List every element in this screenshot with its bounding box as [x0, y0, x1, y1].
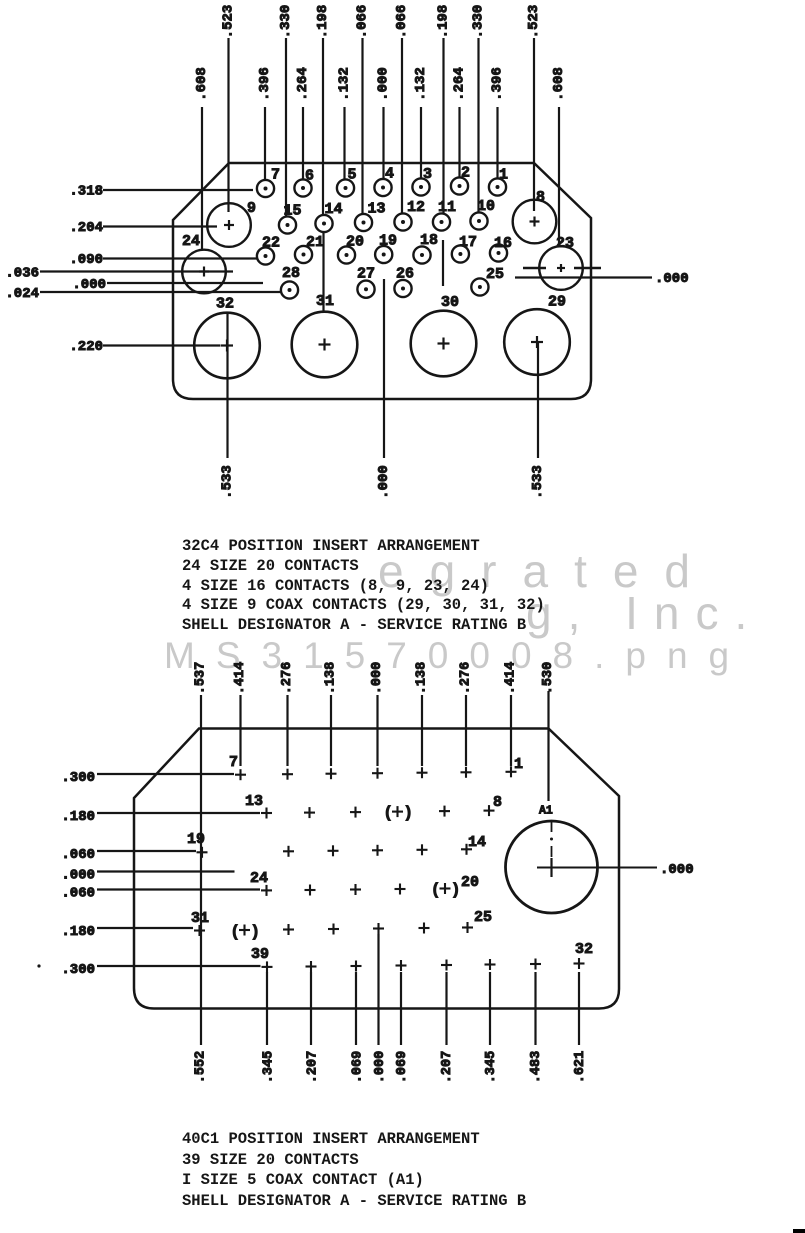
svg-text:.132: .132	[413, 67, 429, 101]
svg-text:.069: .069	[395, 1051, 410, 1083]
svg-text:.000: .000	[61, 868, 95, 884]
svg-text:.180: .180	[61, 809, 95, 825]
svg-text:.060: .060	[61, 847, 95, 863]
svg-text:30: 30	[441, 294, 459, 311]
svg-text:A1: A1	[539, 805, 553, 818]
svg-text:29: 29	[548, 294, 566, 311]
svg-text:.414: .414	[504, 662, 519, 694]
svg-text:24: 24	[250, 870, 268, 887]
svg-text:19: 19	[187, 831, 205, 848]
svg-text:.396: .396	[257, 67, 273, 101]
svg-text:23: 23	[556, 235, 574, 252]
svg-text:6: 6	[305, 168, 314, 185]
svg-text:.414: .414	[233, 662, 248, 694]
svg-text:.318: .318	[69, 184, 103, 200]
svg-text:7: 7	[229, 754, 238, 771]
svg-text:.264: .264	[295, 67, 311, 101]
svg-text:.608: .608	[194, 67, 210, 101]
svg-text:.132: .132	[337, 67, 353, 101]
svg-text:.530: .530	[541, 662, 556, 694]
svg-text:.276: .276	[459, 662, 474, 694]
svg-text:7: 7	[271, 167, 280, 184]
svg-text:): )	[251, 923, 260, 941]
svg-text:.483: .483	[529, 1051, 544, 1083]
svg-text:18: 18	[420, 232, 438, 249]
svg-text:.000: .000	[370, 662, 385, 694]
svg-text:16: 16	[494, 235, 512, 252]
svg-text:.330: .330	[278, 5, 294, 39]
svg-text:8: 8	[493, 794, 502, 811]
svg-text:.066: .066	[355, 5, 371, 39]
svg-text:.204: .204	[69, 220, 103, 236]
svg-text:19: 19	[379, 233, 397, 250]
svg-text:.000: .000	[655, 271, 689, 287]
svg-text:13: 13	[368, 201, 386, 218]
svg-text:25: 25	[486, 266, 504, 283]
svg-text:.537: .537	[194, 662, 209, 694]
svg-text:): )	[451, 881, 460, 899]
svg-text:.000: .000	[72, 277, 106, 293]
svg-text:1: 1	[499, 167, 508, 184]
svg-text:.000: .000	[376, 67, 392, 101]
svg-text:9: 9	[247, 200, 256, 217]
svg-text:): )	[404, 804, 413, 822]
svg-text:17: 17	[459, 234, 477, 251]
svg-text:31: 31	[316, 293, 334, 310]
svg-text:11: 11	[438, 199, 456, 216]
svg-text:.090: .090	[69, 252, 103, 268]
svg-text:32: 32	[216, 296, 234, 313]
svg-text:27: 27	[357, 266, 375, 283]
svg-text:.000: .000	[660, 862, 694, 878]
svg-text:.060: .060	[61, 886, 95, 902]
svg-text:5: 5	[348, 167, 357, 184]
svg-text:.207: .207	[440, 1051, 455, 1083]
svg-text:.264: .264	[452, 67, 468, 101]
svg-text:.523: .523	[221, 5, 237, 39]
svg-text:.138: .138	[324, 662, 339, 694]
svg-text:10: 10	[477, 198, 495, 215]
svg-text:.533: .533	[530, 465, 546, 499]
svg-text:.330: .330	[471, 5, 487, 39]
svg-text:.198: .198	[436, 5, 452, 39]
svg-text:31: 31	[191, 910, 209, 927]
svg-text:26: 26	[396, 266, 414, 283]
svg-text:.345: .345	[262, 1051, 277, 1083]
svg-text:.220: .220	[69, 339, 103, 355]
svg-text:.608: .608	[551, 67, 567, 101]
svg-text:.533: .533	[220, 465, 236, 499]
svg-text:.138: .138	[415, 662, 430, 694]
svg-text:13: 13	[245, 793, 263, 810]
svg-text:32: 32	[575, 941, 593, 958]
svg-text:3: 3	[423, 166, 432, 183]
svg-text:22: 22	[262, 235, 280, 252]
svg-text:12: 12	[407, 199, 425, 216]
svg-text:.300: .300	[61, 770, 95, 786]
svg-text:.000: .000	[376, 465, 392, 499]
svg-text:.066: .066	[394, 5, 410, 39]
svg-text:21: 21	[306, 234, 324, 251]
svg-text:.069: .069	[351, 1051, 366, 1083]
svg-text:.198: .198	[315, 5, 331, 39]
svg-text:15: 15	[284, 203, 302, 220]
svg-text:.207: .207	[306, 1051, 321, 1083]
svg-text:.552: .552	[194, 1051, 209, 1083]
svg-text:(: (	[231, 923, 240, 941]
svg-text:20: 20	[461, 874, 479, 891]
svg-text:.300: .300	[61, 962, 95, 978]
svg-text:14: 14	[468, 834, 486, 851]
svg-text:8: 8	[536, 189, 545, 206]
svg-text:.180: .180	[61, 924, 95, 940]
svg-text:.024: .024	[5, 286, 39, 302]
svg-text:(: (	[384, 804, 393, 822]
svg-text:(: (	[431, 881, 440, 899]
svg-text:20: 20	[346, 234, 364, 251]
svg-text:25: 25	[474, 909, 492, 926]
svg-text:.621: .621	[573, 1051, 588, 1083]
svg-text:.036: .036	[5, 266, 39, 282]
svg-text:28: 28	[282, 265, 300, 282]
svg-text:1: 1	[514, 756, 523, 773]
svg-text:39: 39	[251, 946, 269, 963]
svg-text:.000: .000	[373, 1051, 388, 1083]
svg-text:.345: .345	[484, 1051, 499, 1083]
svg-text:14: 14	[325, 201, 343, 218]
svg-text:.276: .276	[280, 662, 295, 694]
svg-text:.396: .396	[490, 67, 506, 101]
svg-text:.523: .523	[526, 5, 542, 39]
svg-text:2: 2	[461, 165, 470, 182]
svg-text:24: 24	[182, 233, 200, 250]
svg-text:4: 4	[385, 166, 394, 183]
